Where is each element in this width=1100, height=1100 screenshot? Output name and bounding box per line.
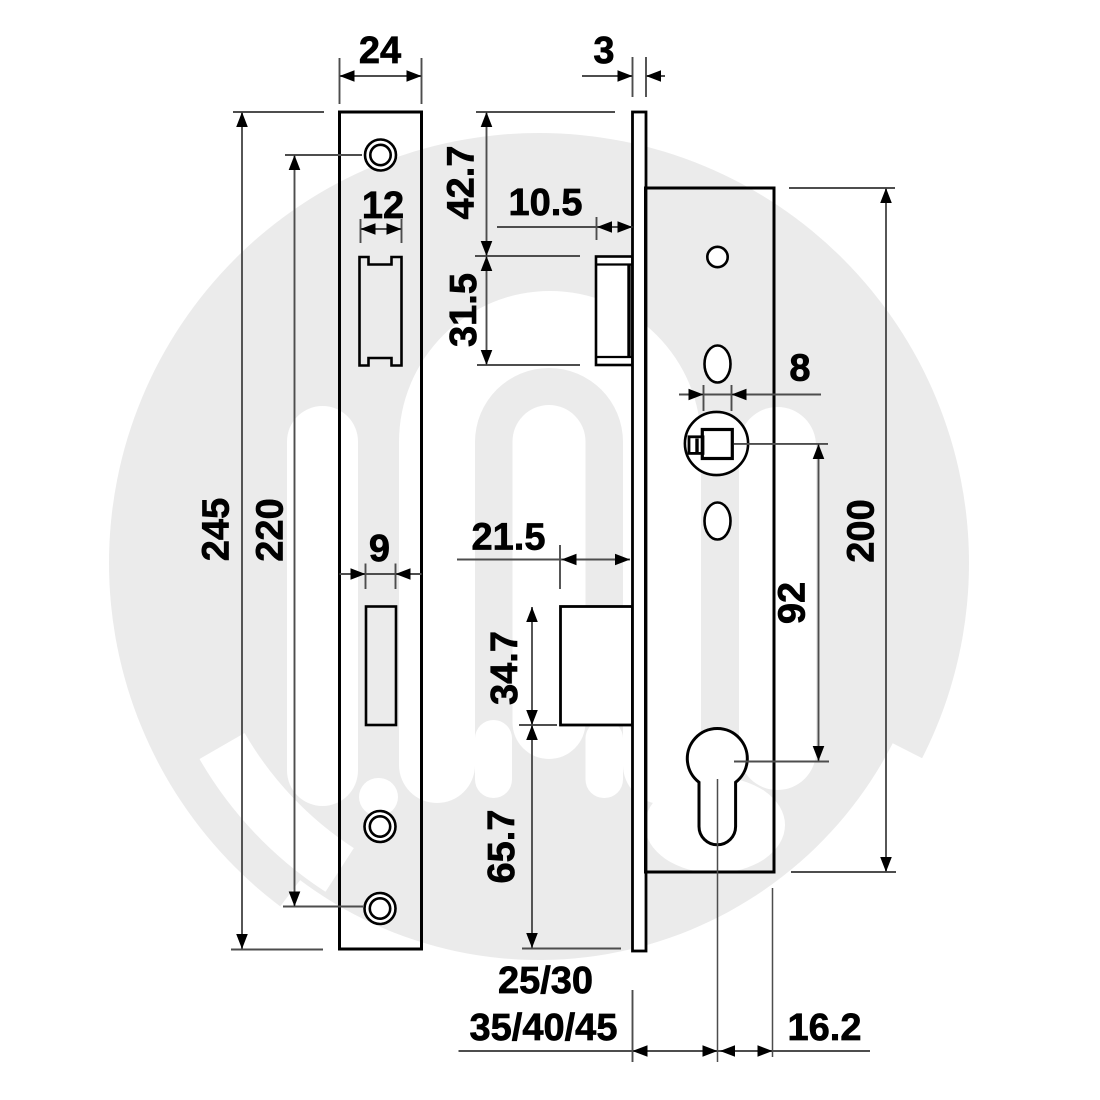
watermark white slot center	[513, 405, 586, 759]
screw hole bottom inner	[370, 898, 390, 918]
watermark white pocket bottom-right	[645, 777, 785, 873]
arrows dim 65.7	[526, 725, 538, 740]
svg-text:31.5: 31.5	[443, 273, 485, 347]
arrows backset	[633, 1045, 648, 1057]
watermark bottom-left white gap sliver	[200, 733, 354, 892]
extension line y365	[477, 364, 580, 366]
svg-text:25/30: 25/30	[498, 960, 593, 1002]
svg-text:35/40/45: 35/40/45	[470, 1007, 618, 1049]
dim 92 line	[818, 444, 820, 761]
watermark white slot right	[739, 407, 816, 790]
arrows dim 3	[618, 70, 633, 82]
latch bolt bevel edge	[627, 265, 630, 358]
spindle tab slot line	[695, 439, 698, 453]
dim 245 line	[241, 112, 243, 949]
latch bolt side view	[596, 257, 633, 366]
dim 21.5 line	[457, 559, 630, 561]
case top hole	[707, 247, 727, 267]
dim 21.5 tick	[559, 545, 561, 589]
svg-text:3: 3	[593, 30, 614, 72]
arrows dim 92	[813, 444, 825, 459]
arrows dim 21.5	[562, 554, 577, 566]
dim 31.5 line	[486, 256, 488, 365]
dim 42.7 top extension	[476, 111, 615, 113]
spindle square	[702, 430, 732, 459]
svg-text:21.5: 21.5	[472, 517, 546, 559]
dim 92 bottom extension	[734, 761, 829, 763]
screw hole top outer	[365, 140, 396, 171]
extension line y725	[519, 724, 557, 726]
watermark leg end whites	[475, 720, 512, 798]
dim 200 bottom extension	[791, 871, 896, 873]
arrows dim 10.5	[597, 221, 612, 233]
screw hole mid inner	[370, 816, 390, 836]
svg-text:12: 12	[362, 185, 404, 227]
svg-text:8: 8	[789, 348, 810, 390]
arrows dim 245	[236, 112, 248, 127]
spindle follower circle	[685, 412, 748, 475]
deadbolt side view	[561, 607, 633, 726]
screw hole mid outer	[365, 811, 396, 842]
svg-text:10.5: 10.5	[509, 182, 583, 224]
bottom dim line	[459, 1050, 871, 1052]
dim 10.5 tick	[596, 217, 598, 240]
dim 9 ticks	[366, 564, 396, 590]
extension line y256	[475, 255, 580, 257]
backset datum tick	[632, 990, 634, 1062]
dim 8 line	[679, 394, 821, 396]
lock case body	[646, 188, 775, 872]
svg-text:65.7: 65.7	[481, 810, 523, 884]
dim 34.7 line	[531, 607, 533, 725]
screw hole bottom outer	[365, 893, 396, 924]
dim 245 bottom extension	[231, 949, 323, 951]
arrowheads	[236, 70, 892, 1057]
arrows dim 220	[289, 155, 301, 170]
watermark logo disc	[109, 133, 1011, 1093]
svg-text:9: 9	[369, 528, 390, 570]
svg-text:245: 245	[196, 498, 238, 561]
svg-text:34.7: 34.7	[484, 631, 526, 705]
arrows dim 34.7	[526, 607, 538, 622]
cylinder centerline	[717, 779, 719, 1062]
case edge extension	[772, 888, 774, 1057]
watermark bottom white cut	[220, 743, 1011, 1093]
arrows dim 9	[351, 568, 366, 580]
deadbolt cutout	[366, 607, 396, 726]
arrows dim 16.2	[720, 1045, 735, 1057]
dim 65.7 line	[531, 725, 533, 948]
oval hole lower	[705, 503, 731, 540]
spindle left tab	[689, 437, 703, 454]
arrows dim 31.5	[481, 256, 493, 271]
arrows dim 8	[689, 389, 704, 401]
dim 220 line	[294, 155, 296, 907]
dim 12 ticks	[361, 219, 402, 243]
dim 220 top extension	[285, 154, 362, 156]
arrows dim 42.7	[481, 112, 493, 127]
faceplate edge strip	[633, 112, 647, 951]
dim 42.7 line	[486, 112, 488, 256]
dim 12 line	[361, 228, 402, 230]
arrows dim 12	[361, 223, 376, 235]
extension line y948	[522, 948, 621, 950]
faceplate plate	[340, 112, 422, 949]
dim 10.5 line	[497, 226, 633, 228]
watermark white slot left	[287, 406, 358, 806]
svg-text:220: 220	[250, 498, 292, 561]
dim 92 top extension	[734, 443, 828, 445]
dim 3 extension ticks	[633, 57, 647, 97]
screw hole top inner	[370, 145, 390, 165]
svg-text:92: 92	[772, 582, 814, 624]
dim 9 line	[340, 573, 422, 575]
dim 24 extension lines	[340, 58, 422, 104]
svg-text:24: 24	[359, 30, 401, 72]
latch cutout H-shape	[360, 257, 402, 366]
dim 200 line	[885, 188, 887, 872]
arrows dim 200	[880, 188, 892, 203]
svg-text:42.7: 42.7	[441, 146, 483, 220]
dim 24 line	[340, 75, 422, 77]
watermark white arch band	[399, 291, 701, 804]
latch bolt flange lines	[596, 265, 633, 358]
dim 200 top extension	[789, 187, 895, 189]
dim 8 ticks	[704, 385, 732, 411]
oval hole upper	[705, 346, 731, 383]
svg-text:200: 200	[841, 499, 883, 562]
dim 245 top extension	[233, 111, 324, 113]
dim 220 bottom extension	[283, 906, 363, 908]
dim 3 lines	[582, 75, 665, 77]
euro cylinder hole	[687, 729, 747, 845]
svg-text:16.2: 16.2	[788, 1007, 862, 1049]
arrows dim 24	[340, 70, 355, 82]
